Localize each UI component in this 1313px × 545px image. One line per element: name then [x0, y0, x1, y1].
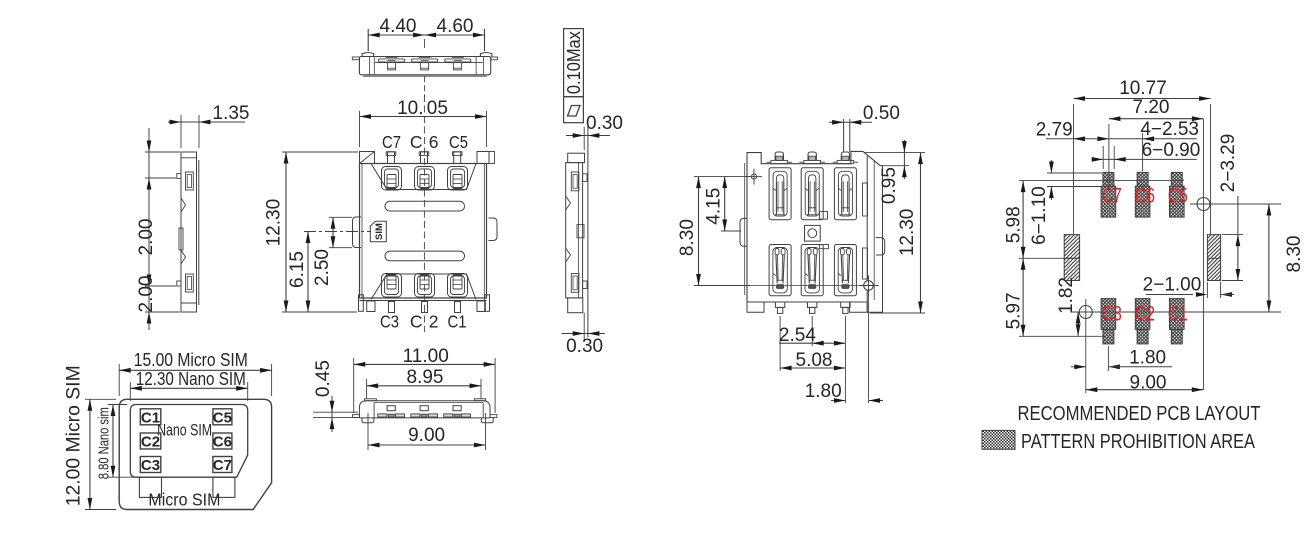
svg-text:C2: C2: [1135, 303, 1155, 326]
svg-text:2.50: 2.50: [312, 249, 333, 286]
sim card pads right: [213, 409, 232, 425]
svg-text:2−1.00: 2−1.00: [1143, 275, 1202, 296]
svg-text:C5: C5: [213, 409, 232, 426]
main view slots: [385, 201, 465, 211]
dim line 4.40/4.60: [368, 34, 484, 36]
dim 0.30 bottom: [562, 333, 605, 335]
svg-text:7.20: 7.20: [1133, 97, 1170, 118]
svg-text:C1: C1: [1168, 303, 1188, 326]
rear view locating hole bottom-right: [750, 285, 858, 287]
centerline horizontal bump: [304, 231, 371, 233]
rear view connecting links: [820, 211, 828, 219]
svg-text:C7: C7: [382, 132, 401, 152]
main view top contacts: [382, 167, 402, 191]
bottom edge view top tabs: [365, 399, 377, 401]
top edge view center tabs: [388, 63, 396, 70]
svg-text:2.00: 2.00: [136, 276, 157, 313]
rear view locating cross top-left: [746, 176, 762, 178]
left side view body: [181, 152, 197, 303]
svg-text:C7: C7: [213, 457, 232, 474]
rear view right top pin leads: [843, 119, 845, 152]
rear view contacts bottom row: [769, 245, 791, 296]
svg-text:05: 05: [427, 98, 448, 119]
svg-text:SIM: SIM: [374, 223, 385, 240]
svg-text:C3: C3: [380, 312, 399, 332]
pcb hole top-right: [1197, 198, 1210, 211]
svg-text:4.15: 4.15: [703, 188, 724, 225]
svg-text:0.30: 0.30: [566, 336, 603, 357]
flatness callout box 0.10Max: [564, 29, 584, 97]
pcb hole bottom-left: [1079, 306, 1092, 319]
main view outer body: [360, 164, 487, 299]
rear view right slots: [863, 183, 868, 216]
rear view bottom pins: [775, 302, 784, 307]
micro sim card outline: [119, 399, 271, 509]
top edge view right wing: [491, 57, 498, 60]
rear view bottom ears: [747, 302, 764, 312]
svg-text:6−1.10: 6−1.10: [1029, 186, 1050, 245]
top edge view left wing: [352, 57, 359, 60]
bottom edge view contact bar: [378, 414, 387, 417]
svg-text:PATTERN PROHIBITION AREA: PATTERN PROHIBITION AREA: [1021, 431, 1256, 453]
svg-text:0.50: 0.50: [863, 103, 900, 124]
svg-text:C3: C3: [1102, 303, 1122, 326]
svg-text:2−3.29: 2−3.29: [1218, 134, 1239, 193]
svg-text:C7: C7: [1102, 185, 1122, 208]
main view left bump: [353, 217, 362, 248]
main view top ears: [360, 152, 375, 164]
svg-text:Nano SIM: Nano SIM: [157, 421, 212, 440]
svg-text:C6: C6: [213, 434, 232, 451]
sim card pads left: [140, 409, 161, 425]
svg-text:C: C: [410, 312, 423, 332]
side view spring notches: [566, 196, 571, 210]
pcb left side pad: [1064, 235, 1079, 281]
svg-text:15.00 Micro SIM: 15.00 Micro SIM: [134, 350, 248, 370]
svg-text:4.40: 4.40: [380, 16, 417, 37]
svg-text:9.00: 9.00: [1130, 373, 1167, 394]
dim 2.00 upper: [148, 128, 150, 330]
bottom edge view wings: [353, 415, 360, 418]
side view right pins: [583, 174, 588, 182]
svg-text:4−2.53: 4−2.53: [1140, 119, 1199, 140]
main view bottom contacts: [382, 274, 402, 298]
SIM marking: [370, 221, 386, 242]
rear view left bump: [740, 218, 747, 246]
left side view mid bump: [179, 228, 183, 250]
svg-text:8.80 Nano sim: 8.80 Nano sim: [95, 407, 112, 479]
main view bottom pins: [389, 302, 395, 313]
pcb top pads: [1103, 172, 1114, 186]
main view bottom trapezoid: [371, 274, 476, 300]
sim card notches: [139, 477, 161, 497]
pattern prohibition legend: [982, 430, 1015, 449]
rear view center square: [805, 225, 821, 241]
svg-text:6−0.90: 6−0.90: [1142, 140, 1201, 161]
main view top trapezoid: [371, 164, 476, 190]
rear view top pins: [771, 160, 788, 163]
svg-text:0.95: 0.95: [879, 167, 900, 204]
svg-text:12.30: 12.30: [264, 199, 285, 247]
svg-text:Micro SIM: Micro SIM: [148, 490, 220, 510]
svg-text:4.60: 4.60: [437, 16, 474, 37]
svg-text:RECOMMENDED PCB LAYOUT: RECOMMENDED PCB LAYOUT: [1018, 403, 1261, 425]
pcb bottom pads: [1101, 299, 1116, 330]
svg-text:10.77: 10.77: [1119, 78, 1167, 99]
svg-text:C5: C5: [449, 132, 468, 152]
dim 2.00 lower: [147, 275, 152, 287]
svg-text:0.10Max: 0.10Max: [563, 30, 584, 94]
svg-text:0.45: 0.45: [313, 360, 334, 397]
main view top pins: [388, 152, 395, 164]
svg-text:5.98: 5.98: [1003, 206, 1024, 243]
main view right bump: [489, 218, 498, 241]
top edge view contact slots: [379, 59, 405, 62]
top edge view left post: [362, 53, 374, 57]
svg-text:8.30: 8.30: [1284, 236, 1305, 273]
svg-text:5.97: 5.97: [1003, 292, 1024, 329]
main view bottom ears: [359, 295, 364, 312]
centerline top view: [424, 76, 426, 97]
rear view right flange: [867, 156, 882, 312]
svg-text:C1: C1: [448, 312, 467, 332]
svg-text:C6: C6: [1135, 185, 1155, 208]
rear view right bump: [876, 238, 885, 255]
side view body: [568, 153, 585, 162]
left side view pins: [177, 174, 181, 179]
top edge view right post: [480, 53, 492, 57]
svg-text:0.30: 0.30: [586, 113, 623, 134]
svg-text:2.00: 2.00: [136, 219, 157, 256]
svg-text:9.00: 9.00: [408, 425, 445, 446]
rear view contacts top row: [769, 168, 791, 220]
left side view latches: [186, 172, 194, 190]
bottom edge view feet: [362, 418, 374, 423]
svg-text:6: 6: [429, 132, 439, 152]
svg-text:1.80: 1.80: [1129, 348, 1166, 369]
bottom edge view body: [359, 401, 490, 409]
side view latch details: [571, 172, 579, 191]
svg-text:12.00 Micro SIM: 12.00 Micro SIM: [64, 365, 85, 506]
side view middle lug: [577, 225, 584, 238]
svg-text:2: 2: [429, 312, 439, 332]
svg-text:C: C: [410, 132, 423, 152]
svg-text:2.79: 2.79: [1036, 120, 1073, 141]
main view centerline: [423, 95, 425, 332]
pcb surface line: [587, 123, 589, 337]
svg-text:C5: C5: [1168, 185, 1188, 208]
svg-text:C3: C3: [141, 457, 160, 474]
pcb right side pad: [1207, 235, 1220, 281]
svg-text:1.35: 1.35: [213, 103, 250, 124]
nano sim card outline: [130, 405, 247, 478]
svg-text:12.30 Nano SIM: 12.30 Nano SIM: [136, 369, 246, 389]
svg-text:8.30: 8.30: [677, 219, 698, 256]
svg-text:12.30: 12.30: [897, 209, 918, 257]
bottom edge view center tabs: [387, 406, 395, 411]
rear pin extension lines: [779, 316, 781, 371]
pcb pad divider line: [1019, 257, 1080, 259]
top edge view body: [359, 57, 490, 75]
svg-text:6.15: 6.15: [287, 251, 308, 288]
left side view notches: [181, 198, 186, 212]
svg-text:1.82: 1.82: [1056, 277, 1077, 314]
svg-text:10.: 10.: [397, 98, 423, 119]
rear view outer body: [747, 151, 880, 302]
svg-text:8.95: 8.95: [407, 367, 444, 388]
